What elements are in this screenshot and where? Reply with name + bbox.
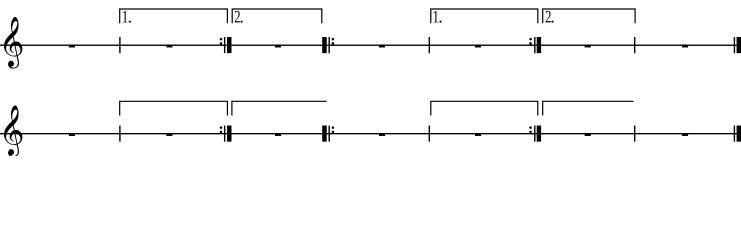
volta number glyph (. after 2) <box>240 21 242 23</box>
barline (system 2 final barline thin) <box>734 126 735 142</box>
volta bracket (volta 2, system 1 first half) <box>232 9 322 23</box>
staff line (system 1) <box>0 45 741 46</box>
whole rest (system 2 measure 4) <box>379 133 385 136</box>
barline (system 2 bar 6) <box>634 126 635 142</box>
volta number glyph (1) <box>123 11 128 23</box>
volta number glyph (2) <box>235 11 240 23</box>
repeat dots (system 1 end repeat 2) <box>529 38 532 41</box>
barline (system 2 bar 4) <box>429 126 430 142</box>
barline (system 1 bar 4) <box>429 37 430 53</box>
volta number glyph (. after 1) <box>129 21 131 23</box>
volta number glyph (2) <box>546 11 551 23</box>
barline (system 1 final barline thin) <box>734 37 735 53</box>
barline (system 1 end repeat 1 thin) <box>224 37 225 53</box>
whole rest (system 2 measure 1) <box>69 133 75 136</box>
whole rest (system 1 measure 7) <box>682 45 688 48</box>
whole rest (system 2 measure 6) <box>585 133 591 136</box>
volta number glyph (. after 1) <box>439 21 441 23</box>
whole rest (system 2 measure 5) <box>475 133 481 136</box>
thick barline (system 1 start repeat thick) <box>322 37 327 53</box>
whole rest (system 1 measure 6) <box>585 45 591 48</box>
treble clef (system 1) <box>4 17 22 69</box>
whole rest (system 1 measure 4) <box>379 45 385 48</box>
volta bracket (volta 1, system 1 second half) <box>431 9 538 23</box>
thick barline (system 1 end repeat 1 thick) <box>227 37 232 53</box>
treble clef (system 2) <box>4 105 22 157</box>
repeat dots (system 1 end repeat 1) <box>220 38 223 41</box>
whole rest (system 2 measure 7) <box>682 133 688 136</box>
thick barline (system 2 final barline thick) <box>737 126 741 142</box>
volta bracket (bracket 1, system 2 second half) <box>431 101 538 115</box>
repeat dots (system 2 end repeat 1) <box>220 126 223 128</box>
thick barline (system 2 start repeat thick) <box>322 126 327 142</box>
whole rest (system 2 measure 2) <box>166 133 172 136</box>
barline (system 2 start repeat thin) <box>329 126 330 142</box>
repeat dots (system 2 start repeat) <box>332 126 335 128</box>
staff line (system 2) <box>0 133 741 134</box>
barline (system 1 bar 1) <box>119 37 120 53</box>
barline (system 2 end repeat 2 thin) <box>534 126 535 142</box>
whole rest (system 2 measure 3) <box>275 133 281 136</box>
whole rest (system 1 measure 5) <box>475 45 481 48</box>
thick barline (system 1 final barline thick) <box>737 37 741 53</box>
whole rest (system 1 measure 1) <box>69 45 75 48</box>
whole rest (system 1 measure 3) <box>275 45 281 48</box>
barline (system 1 start repeat thin) <box>329 37 330 53</box>
barline (system 2 bar 1) <box>119 126 120 142</box>
volta number glyph (1) <box>434 11 439 23</box>
volta bracket (bracket 2, system 2 first half, open end) <box>232 101 327 115</box>
barline (system 1 end repeat 2 thin) <box>534 37 535 53</box>
thick barline (system 2 end repeat 1 thick) <box>227 126 232 142</box>
volta bracket (volta 2, system 1 second half) <box>543 9 635 23</box>
volta bracket (bracket 1, system 2 first half) <box>120 101 228 115</box>
repeat dots (system 2 end repeat 2) <box>529 126 532 128</box>
barline (system 1 bar 6) <box>634 37 635 53</box>
volta bracket (bracket 2, system 2 second half, open end) <box>543 101 634 115</box>
thick barline (system 2 end repeat 2 thick) <box>537 126 541 142</box>
thick barline (system 1 end repeat 2 thick) <box>537 37 541 53</box>
whole rest (system 1 measure 2) <box>166 45 172 48</box>
volta number glyph (. after 2) <box>551 21 553 23</box>
volta bracket (volta 1, system 1 first half) <box>120 9 228 23</box>
barline (system 2 end repeat 1 thin) <box>224 126 225 142</box>
repeat dots (system 1 start repeat) <box>332 38 335 41</box>
